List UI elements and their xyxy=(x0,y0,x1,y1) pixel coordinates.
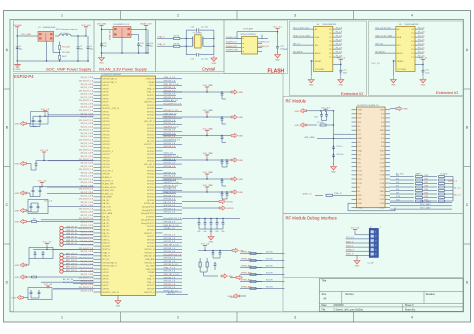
block box WLAN_3.3V Power Supply xyxy=(94,20,156,72)
svg-text:FLASH_D: FLASH_D xyxy=(102,176,112,179)
svg-text:USB_AVB: USB_AVB xyxy=(145,258,155,261)
svg-text:4: 4 xyxy=(411,14,413,18)
svg-text:ANT_FEED: ANT_FEED xyxy=(305,136,316,139)
rf mcu left pins xyxy=(352,110,364,210)
svg-text:GPIO16: GPIO16 xyxy=(102,134,110,136)
svg-text:DA_RREF: DA_RREF xyxy=(102,196,112,199)
capacitor C2 xyxy=(77,45,83,51)
svg-text:VCC_3.3: VCC_3.3 xyxy=(372,63,381,65)
regulator U1 SGM6603 xyxy=(38,31,54,41)
svg-text:Crystal: Crystal xyxy=(202,67,215,72)
svg-text:SD_D1_1.8.8: SD_D1_1.8.8 xyxy=(81,97,94,99)
svg-text:GPIO37: GPIO37 xyxy=(147,134,155,136)
svg-text:MTMS_AD0: MTMS_AD0 xyxy=(241,272,252,275)
io expander left pin 1 xyxy=(293,28,314,30)
power flag VDD_1V8 (SOC out) xyxy=(85,27,87,30)
svg-text:GND: GND xyxy=(238,179,243,181)
io expander body xyxy=(396,26,415,71)
svg-text:GPIO60: GPIO60 xyxy=(147,246,155,248)
svg-text:I2S_DOUT_1.8: I2S_DOUT_1.8 xyxy=(79,140,94,142)
wire U3 output xyxy=(131,29,146,31)
svg-text:SD_D2_1.8.8: SD_D2_1.8.8 xyxy=(81,133,94,135)
wire flash vcc loop xyxy=(237,38,242,40)
svg-text:SDA_2.0 IIC_SDA: SDA_2.0 IIC_SDA xyxy=(293,34,310,37)
svg-text:GPIO21: GPIO21 xyxy=(102,154,110,156)
svg-text:2: 2 xyxy=(177,316,179,320)
svg-text:USB_D+: USB_D+ xyxy=(102,239,111,241)
svg-text:SD_D2_1.8.8: SD_D2_1.8.8 xyxy=(81,261,94,263)
flash U4 body xyxy=(242,37,258,55)
svg-text:GPIO15: GPIO15 xyxy=(102,131,110,133)
svg-text:GPIO17: GPIO17 xyxy=(102,138,110,140)
svg-text:VDDPST_5: VDDPST_5 xyxy=(144,144,155,146)
svg-text:GND: GND xyxy=(421,85,426,87)
svg-text:VCC/GND: VCC/GND xyxy=(397,69,407,71)
svg-text:10u: 10u xyxy=(150,45,153,47)
rf right resistor rows xyxy=(390,176,414,178)
io expander vcc right xyxy=(422,59,424,62)
svg-text:IO19: IO19 xyxy=(380,187,384,189)
svg-text:BL_1.2: BL_1.2 xyxy=(454,188,461,190)
svg-text:FLASH_CLK: FLASH_CLK xyxy=(258,41,270,44)
svg-text:SDIO_DAT2: SDIO_DAT2 xyxy=(420,207,431,210)
gnd under cap bus xyxy=(210,229,212,235)
svg-text:GPIO42_1.8: GPIO42_1.8 xyxy=(164,205,176,207)
svg-text:R34: R34 xyxy=(425,189,428,191)
svg-text:GPIO28: GPIO28 xyxy=(147,98,155,100)
svg-text:GPIO61_N_1.8: GPIO61_N_1.8 xyxy=(164,185,179,187)
svg-text:GPIO39_1.8: GPIO39_1.8 xyxy=(164,241,176,243)
svg-text:SD_D2_1.8.8: SD_D2_1.8.8 xyxy=(81,212,94,214)
svg-text:GPIO14: GPIO14 xyxy=(102,128,110,130)
block box Crystal xyxy=(156,20,225,72)
svg-text:GPIO39: GPIO39 xyxy=(147,147,155,149)
svg-text:VDDPST_6_1.8: VDDPST_6_1.8 xyxy=(164,156,180,158)
svg-text:USB_DP_IX: USB_DP_IX xyxy=(66,240,77,242)
svg-text:SCL_2.0 IIC_SCL: SCL_2.0 IIC_SCL xyxy=(293,27,310,29)
svg-text:FLASH_GND: FLASH_GND xyxy=(226,49,239,52)
debug wires xyxy=(346,238,370,240)
resistor row E xyxy=(32,221,37,223)
svg-text:USB_AV_N_1.8: USB_AV_N_1.8 xyxy=(164,224,180,227)
svg-text:SD_D2_1.8.8: SD_D2_1.8.8 xyxy=(81,123,94,125)
svg-text:P3_1.8: P3_1.8 xyxy=(336,39,343,41)
svg-text:EPAD: EPAD xyxy=(358,206,364,209)
svg-text:GND: GND xyxy=(15,164,20,166)
resistor pair vertical xyxy=(199,262,201,267)
svg-text:GND: GND xyxy=(99,63,104,65)
svg-text:VDDA3: VDDA3 xyxy=(147,81,155,84)
svg-text:FLASH_CS: FLASH_CS xyxy=(226,36,237,39)
svg-text:RESET: RESET xyxy=(315,61,322,63)
svg-text:GPIO52_1.8: GPIO52_1.8 xyxy=(164,136,176,138)
svg-text:GPIO52: GPIO52 xyxy=(147,193,155,195)
svg-text:RF Module: RF Module xyxy=(286,99,307,104)
svg-text:NC_PAD_1.8: NC_PAD_1.8 xyxy=(164,188,177,191)
mid lower caps xyxy=(212,250,214,251)
svg-text:SD_D2_1.8.8: SD_D2_1.8.8 xyxy=(81,290,94,292)
svg-text:SD_D2_1.8.8: SD_D2_1.8.8 xyxy=(81,172,94,174)
svg-text:1: 1 xyxy=(61,14,63,18)
svg-text:USB_DP_IX: USB_DP_IX xyxy=(66,226,77,228)
svg-text:IO21: IO21 xyxy=(380,195,384,197)
svg-text:VDDPST_6: VDDPST_6 xyxy=(144,102,155,104)
svg-text:DA_2P+: DA_2P+ xyxy=(102,225,110,228)
svg-text:ADDR: ADDR xyxy=(397,52,403,55)
svg-text:DA_3N-: DA_3N- xyxy=(102,228,110,231)
svg-text:XTAL_N: XTAL_N xyxy=(147,281,155,284)
svg-text:MIPI_DSI_N: MIPI_DSI_N xyxy=(66,253,77,255)
power flag WLAN_3.3V xyxy=(145,25,147,28)
debug gnd xyxy=(356,255,358,258)
svg-text:P6: P6 xyxy=(411,53,413,55)
svg-text:MIPI_DSI_N: MIPI_DSI_N xyxy=(66,260,77,262)
svg-text:C2x: C2x xyxy=(216,231,219,233)
svg-text:GND: GND xyxy=(380,191,385,193)
svg-text:GPIO1/XTAL_P: GPIO1/XTAL_P xyxy=(102,81,117,84)
svg-text:VCC_1.8: VCC_1.8 xyxy=(41,109,50,111)
decoupling group B xyxy=(43,152,45,155)
svg-text:P1: P1 xyxy=(411,33,413,35)
debug power flag VCC_3.3 xyxy=(354,230,356,233)
svg-text:GPIO38_1.8: GPIO38_1.8 xyxy=(164,87,176,89)
svg-text:XTAL_P_1.8: XTAL_P_1.8 xyxy=(164,266,176,269)
svg-text:RxD0_D: RxD0_D xyxy=(346,241,354,243)
svg-text:SDIO: SDIO xyxy=(149,275,154,277)
svg-text:VDDPST_5_1.8: VDDPST_5_1.8 xyxy=(164,126,180,128)
svg-text:GPIO60_1.8: GPIO60_1.8 xyxy=(164,261,176,263)
svg-text:I2S_DOUT_1.8: I2S_DOUT_1.8 xyxy=(79,80,94,82)
capacitor C14 flash xyxy=(276,45,279,51)
rf bottom right wires xyxy=(390,202,452,204)
svg-text:WLAN_3.3V Power Supply: WLAN_3.3V Power Supply xyxy=(99,67,147,72)
decoupling group A (VDD 1V8) xyxy=(44,111,46,114)
svg-text:GPIO11: GPIO11 xyxy=(102,118,110,120)
svg-text:GND: GND xyxy=(212,63,217,65)
svg-text:C32 10u: C32 10u xyxy=(336,154,344,156)
svg-text:SD_D1_1.8.8: SD_D1_1.8.8 xyxy=(81,146,94,148)
io expander right pin 4 xyxy=(333,40,342,42)
svg-text:USB_DP_IX: USB_DP_IX xyxy=(66,243,77,245)
svg-text:IO17: IO17 xyxy=(380,179,384,181)
svg-text:GND: GND xyxy=(358,138,363,140)
svg-text:WLAN_EN: WLAN_EN xyxy=(109,30,112,40)
svg-text:P5_1.8: P5_1.8 xyxy=(336,47,343,49)
svg-text:MTMS_D: MTMS_D xyxy=(346,250,355,252)
svg-text:R33: R33 xyxy=(425,185,428,187)
svg-text:P5: P5 xyxy=(329,49,331,51)
svg-text:SD_D1_1.8.8: SD_D1_1.8.8 xyxy=(81,77,94,79)
svg-text:DA_OUT+: DA_OUT+ xyxy=(102,209,112,212)
svg-text:GPIO59: GPIO59 xyxy=(147,243,155,245)
svg-text:VCC_3.3: VCC_3.3 xyxy=(321,107,330,109)
svg-text:GND: GND xyxy=(380,171,385,173)
svg-text:GPIO31: GPIO31 xyxy=(147,111,155,113)
svg-text:IO9: IO9 xyxy=(396,192,399,194)
svg-text:R35: R35 xyxy=(425,192,428,194)
svg-text:SOC_1V8: SOC_1V8 xyxy=(81,25,91,27)
svg-text:GPIO63_N_1.8: GPIO63_N_1.8 xyxy=(164,264,179,266)
svg-text:GND: GND xyxy=(380,130,385,132)
flash left pin 3 xyxy=(226,47,242,49)
svg-text:VDD_HP_4_1.8: VDD_HP_4_1.8 xyxy=(164,244,180,246)
svg-text:MTMS_AD0: MTMS_AD0 xyxy=(241,286,252,289)
svg-text:GPIO34: GPIO34 xyxy=(147,125,155,127)
svg-text:Extended IO: Extended IO xyxy=(341,91,363,96)
wire flash vcc drop xyxy=(277,31,279,44)
bottom mid rows to debug xyxy=(240,253,262,255)
wire crystal top with cap C10 xyxy=(186,29,196,31)
svg-text:GND: GND xyxy=(380,150,385,152)
svg-text:GND: GND xyxy=(380,110,385,112)
svg-text:GPIO7: GPIO7 xyxy=(102,102,109,104)
svg-text:[Snap]GPIO11: [Snap]GPIO11 xyxy=(141,220,155,222)
svg-text:IO13: IO13 xyxy=(358,175,362,177)
mcu U2 left pin rows xyxy=(41,77,120,294)
component box H xyxy=(28,288,52,300)
svg-text:GPIO8: GPIO8 xyxy=(102,105,109,107)
svg-text:GPIO2: GPIO2 xyxy=(102,85,109,87)
svg-text:VDDPST_1.8F_IO: VDDPST_1.8F_IO xyxy=(102,292,119,294)
svg-text:MIPI_DSI_N: MIPI_DSI_N xyxy=(66,270,77,272)
svg-text:GPIO48: GPIO48 xyxy=(147,180,155,182)
svg-text:IO2: IO2 xyxy=(358,130,361,132)
svg-text:MTMS_AD0: MTMS_AD0 xyxy=(241,258,252,261)
wire U1 bottom pins xyxy=(46,42,48,62)
svg-text:Number: Number xyxy=(345,293,354,296)
svg-text:SDIO_1.8: SDIO_1.8 xyxy=(164,153,174,155)
io expander left pin 1 xyxy=(375,28,396,30)
svg-text:IO16: IO16 xyxy=(380,175,384,177)
svg-text:2: 2 xyxy=(177,14,179,18)
capacitor C1 xyxy=(16,45,22,51)
svg-text:USB_D-: USB_D- xyxy=(102,236,110,238)
rf power flag VCC_3.3 xyxy=(325,109,327,112)
flash right pin 1 xyxy=(258,38,263,40)
wire crystal right vertical xyxy=(213,30,215,55)
svg-text:GPIO62_P_1.8: GPIO62_P_1.8 xyxy=(164,110,179,112)
svg-text:FLASH_CS: FLASH_CS xyxy=(102,192,113,195)
svg-text:MIPI_DSI_N: MIPI_DSI_N xyxy=(66,257,77,259)
svg-text:VDDPST: VDDPST xyxy=(146,216,155,218)
svg-text:GPIO53: GPIO53 xyxy=(147,197,155,199)
svg-text:osc 10n: osc 10n xyxy=(201,27,208,29)
wire group B to mcu xyxy=(48,160,94,162)
title block outline xyxy=(319,278,463,311)
svg-text:GND: GND xyxy=(15,124,20,126)
block box RF Module Debug Interface xyxy=(283,214,463,278)
mid decoupling group 1 xyxy=(206,87,208,90)
ground flash xyxy=(277,52,279,55)
debug connector J2 xyxy=(369,229,378,258)
svg-text:IO18: IO18 xyxy=(380,183,384,185)
svg-text:GND: GND xyxy=(338,85,343,87)
io expander left pin 4 xyxy=(375,52,396,54)
svg-text:GPIO38_1.8: GPIO38_1.8 xyxy=(164,277,176,279)
svg-text:FLASH: FLASH xyxy=(268,69,285,75)
svg-text:MTMS_AD0: MTMS_AD0 xyxy=(241,279,252,282)
svg-text:AD_NC_IN: AD_NC_IN xyxy=(63,281,73,284)
svg-text:VDDA3: VDDA3 xyxy=(147,271,155,274)
block box ESP32-P4 xyxy=(14,74,284,312)
svg-text:R30: R30 xyxy=(425,175,428,177)
svg-text:XTAL_P: XTAL_P xyxy=(158,35,166,38)
svg-text:FLASH_WP: FLASH_WP xyxy=(226,45,237,48)
port arrow bottom A xyxy=(230,277,236,279)
io expander right pin 1 xyxy=(415,28,424,30)
svg-text:IO12: IO12 xyxy=(380,158,384,160)
port arrow UART TX xyxy=(182,201,219,203)
svg-text:SD_D2_1.8.8: SD_D2_1.8.8 xyxy=(81,153,94,155)
svg-text:VDD_HP_3_1.8: VDD_HP_3_1.8 xyxy=(164,274,180,276)
rf small component xyxy=(320,124,326,126)
svg-text:4R7 1uH power inductor: 4R7 1uH power inductor xyxy=(56,28,78,31)
svg-text:IO6: IO6 xyxy=(396,182,399,184)
wire U3 bottom xyxy=(121,38,123,54)
svg-text:GND: GND xyxy=(15,277,20,279)
svg-text:XTAL_P: XTAL_P xyxy=(147,278,155,281)
svg-text:Title: Title xyxy=(322,279,327,283)
svg-text:MTMS_AD0: MTMS_AD0 xyxy=(241,251,252,254)
svg-text:IO2: IO2 xyxy=(381,118,384,120)
rf bottom left loop wire xyxy=(348,202,352,204)
svg-text:GPIO46: GPIO46 xyxy=(147,174,155,176)
svg-text:MIPI_DSI_N: MIPI_DSI_N xyxy=(66,263,77,265)
svg-text:R24 0R: R24 0R xyxy=(266,280,273,282)
svg-text:R32: R32 xyxy=(425,182,428,184)
svg-text:GPIO42: GPIO42 xyxy=(147,157,155,159)
svg-text:FLASH_HOLD: FLASH_HOLD xyxy=(102,186,116,189)
wire U1 output xyxy=(55,35,59,37)
svg-text:VCC_3.3: VCC_3.3 xyxy=(44,284,53,286)
svg-text:VCC_3.3: VCC_3.3 xyxy=(201,244,210,246)
svg-text:R2 100K: R2 100K xyxy=(62,52,70,54)
svg-text:VDDPST_1.8F_IO: VDDPST_1.8F_IO xyxy=(102,108,119,110)
svg-text:SD_D1_1.8.8: SD_D1_1.8.8 xyxy=(81,274,94,276)
svg-text:C:\Users\..\p41_core.SchDoc: C:\Users\..\p41_core.SchDoc xyxy=(333,308,364,311)
io expander gnd left xyxy=(311,60,314,62)
svg-text:SD_D1_1.8.8: SD_D1_1.8.8 xyxy=(81,215,94,217)
svg-text:P7: P7 xyxy=(411,57,413,59)
svg-text:[Snap]GPIO12_1.8: [Snap]GPIO12_1.8 xyxy=(164,218,182,220)
diff pair rings upper xyxy=(60,226,63,229)
svg-text:R36: R36 xyxy=(425,196,428,198)
svg-text:R6 0R: R6 0R xyxy=(174,43,180,45)
io expander left pin 2 xyxy=(375,36,396,38)
io expander right pin 3 xyxy=(333,36,342,38)
svg-text:VDD_HP_3: VDD_HP_3 xyxy=(144,121,155,123)
svg-text:GPIO4: GPIO4 xyxy=(102,92,109,94)
svg-text:P1_1.8: P1_1.8 xyxy=(336,31,343,33)
svg-text:GPIO18: GPIO18 xyxy=(102,141,110,143)
capacitor C3 xyxy=(87,45,93,51)
svg-text:GPIO1/XTAL_P: GPIO1/XTAL_P xyxy=(102,265,117,268)
crystal input row XTAL_P with resistor R5 xyxy=(157,37,173,39)
svg-text:AD_NC_IN: AD_NC_IN xyxy=(63,278,73,281)
ground rail SOC xyxy=(17,60,89,62)
rf mid caps xyxy=(333,145,335,147)
feedback resistor R1 xyxy=(59,45,61,49)
svg-text:NC_PAD: NC_PAD xyxy=(146,265,155,268)
svg-text:VDD_HP_3_1.8: VDD_HP_3_1.8 xyxy=(164,84,180,86)
svg-text:40MX_1.2: 40MX_1.2 xyxy=(448,181,458,183)
io expander right pin 5 xyxy=(415,44,424,46)
svg-text:R22 0R: R22 0R xyxy=(266,266,273,268)
mid decoupling group 4 xyxy=(206,155,208,158)
svg-text:IO11: IO11 xyxy=(380,154,384,156)
svg-text:5V0_USB: 5V0_USB xyxy=(97,23,107,25)
svg-text:GPIO55: GPIO55 xyxy=(147,226,155,228)
svg-text:VDDPST_4: VDDPST_4 xyxy=(102,151,113,153)
svg-text:GPIO22: GPIO22 xyxy=(102,157,110,159)
svg-text:GPIO36_1.8: GPIO36_1.8 xyxy=(164,238,176,240)
svg-text:GND: GND xyxy=(331,172,336,174)
svg-text:I2S_DOUT_1.8: I2S_DOUT_1.8 xyxy=(79,189,94,191)
svg-text:P3: P3 xyxy=(411,41,413,43)
svg-text:VCC_3.3: VCC_3.3 xyxy=(337,57,346,59)
gnd arrow lower mid xyxy=(203,272,205,276)
io expander right pin 6 xyxy=(333,48,342,50)
svg-text:P3: P3 xyxy=(329,41,331,43)
bulk cap bus xyxy=(182,218,240,220)
svg-text:P2_1.8: P2_1.8 xyxy=(336,35,343,37)
svg-text:P1: P1 xyxy=(329,33,331,35)
svg-text:SCL_2.0 IIC_SCL: SCL_2.0 IIC_SCL xyxy=(375,27,392,29)
wire WLAN input rail xyxy=(101,28,103,56)
svg-text:GPIO54_1.8: GPIO54_1.8 xyxy=(164,176,176,178)
flash right pin 2 xyxy=(258,43,263,45)
svg-text:3V3: 3V3 xyxy=(358,122,361,124)
io expander gnd left xyxy=(393,60,396,62)
svg-text:IO3: IO3 xyxy=(381,122,384,124)
io expander cap xyxy=(422,69,425,75)
svg-text:U0RXD: U0RXD xyxy=(226,208,234,210)
wire group C to mcu xyxy=(48,186,94,188)
svg-text:GPIO28: GPIO28 xyxy=(147,289,155,291)
svg-text:I2S_DOUT_1.8: I2S_DOUT_1.8 xyxy=(79,110,94,112)
frame column ticks xyxy=(120,11,122,20)
svg-text:SDIO: SDIO xyxy=(149,85,154,87)
mid decoupling group 3 xyxy=(206,131,208,134)
regulator U3 LDO xyxy=(113,27,131,38)
io expander cap xyxy=(339,69,342,75)
svg-text:40MX_1.2: 40MX_1.2 xyxy=(303,194,313,196)
svg-text:U2 ESP32-P4NRW32: U2 ESP32-P4NRW32 xyxy=(101,74,122,76)
svg-text:SD_D2_1.8.8: SD_D2_1.8.8 xyxy=(81,143,94,145)
block box FLASH xyxy=(224,20,288,74)
svg-text:IO13: IO13 xyxy=(380,163,384,165)
svg-text:GND: GND xyxy=(15,193,20,195)
svg-text:GPIO32: GPIO32 xyxy=(147,115,155,117)
svg-text:100n: 100n xyxy=(425,72,429,74)
svg-text:DA_3P+: DA_3P+ xyxy=(102,232,110,235)
svg-text:3: 3 xyxy=(294,14,296,18)
mid lower gnd arrow xyxy=(232,248,239,252)
svg-text:GND: GND xyxy=(358,110,363,112)
svg-text:Drawn By:: Drawn By: xyxy=(405,308,416,311)
svg-text:SD_D1_1.8.8: SD_D1_1.8.8 xyxy=(81,195,94,197)
svg-text:GND: GND xyxy=(15,265,20,267)
io expander left pin 3 xyxy=(375,44,396,46)
io expander right pin 2 xyxy=(415,32,424,34)
crystal Y1 body xyxy=(195,35,202,48)
svg-text:P4_1.8: P4_1.8 xyxy=(418,43,425,45)
svg-text:C31 1u: C31 1u xyxy=(336,146,342,148)
rf mcu right pins xyxy=(380,110,390,210)
svg-text:5V0_USB: 5V0_USB xyxy=(21,34,31,36)
svg-text:GPIO43_1.8: GPIO43_1.8 xyxy=(164,130,176,132)
svg-text:A0_ADDR: A0_ADDR xyxy=(293,50,303,53)
